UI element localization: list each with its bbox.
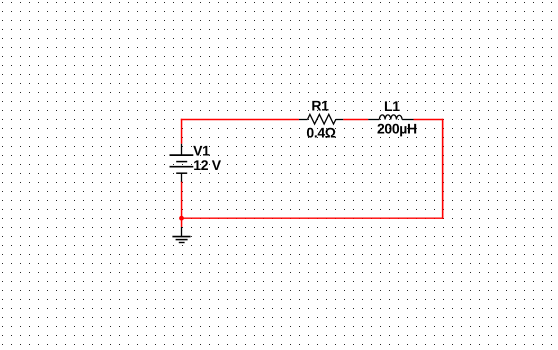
wire left lower vertical segment [181,181,183,227]
wire top-left vertical segment [181,119,183,144]
wire bottom horizontal segment [181,217,443,219]
inductor L1 [368,115,413,120]
resistor R1 [299,114,343,124]
wire top horizontal segment middle [343,119,368,121]
battery V1 [170,144,194,182]
svg-text:V1: V1 [193,143,210,159]
svg-text:L1: L1 [384,98,400,114]
node junction dot [179,216,184,221]
wire top horizontal segment left [181,119,299,121]
svg-text:R1: R1 [311,98,329,114]
ground [172,227,190,243]
svg-text:12 V: 12 V [193,157,221,173]
svg-text:0.4Ω: 0.4Ω [306,125,335,141]
wire right vertical segment [442,119,444,219]
svg-text:200µH: 200µH [377,121,417,137]
wire top horizontal segment right [414,119,444,121]
